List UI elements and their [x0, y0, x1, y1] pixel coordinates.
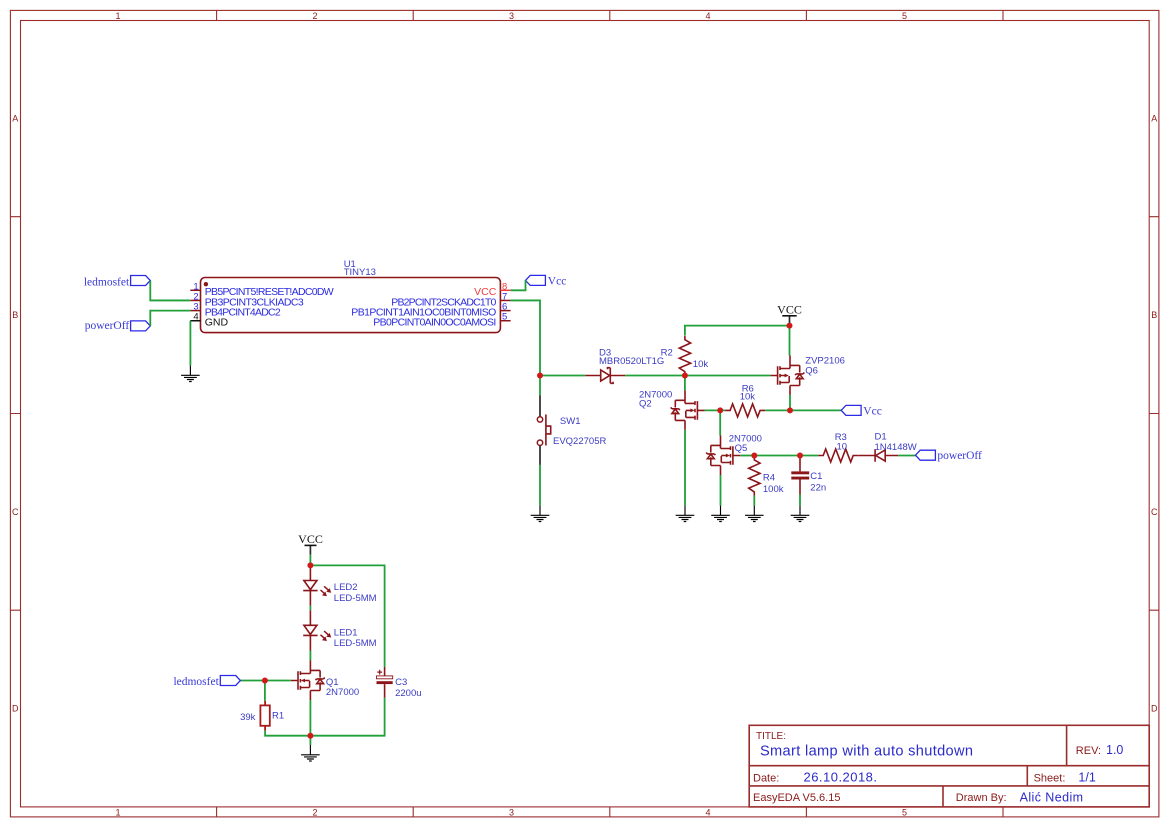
svg-text:R1: R1 — [272, 711, 284, 722]
svg-text:EVQ22705R: EVQ22705R — [553, 436, 606, 447]
resistor R3 — [818, 449, 858, 462]
svg-text:4: 4 — [193, 312, 198, 323]
transistor Q5 2N7000 — [706, 436, 740, 476]
svg-text:LED-5MM: LED-5MM — [334, 638, 377, 649]
wire node G to C3 branch — [310, 565, 384, 667]
wire node H down to R1 — [264, 681, 266, 701]
wire node D down to Q5 drain — [719, 410, 721, 435]
transistor Q2 2N7000 — [671, 390, 705, 430]
svg-text:B: B — [1151, 310, 1157, 320]
pin 2 U1 — [190, 291, 304, 308]
wire Q2 source to ground — [684, 430, 686, 506]
ground (Q5) — [711, 506, 730, 522]
pin 8 U1 VCC — [474, 281, 510, 298]
wire node H to ledmosfet flag — [240, 680, 265, 682]
wire pin8 to Vcc flag — [511, 280, 526, 290]
ground (U1 GND) — [181, 366, 200, 382]
junction dot node I (rail / ground) — [307, 733, 313, 739]
svg-text:MBR0520LT1G: MBR0520LT1G — [599, 356, 664, 367]
svg-text:2N7000: 2N7000 — [326, 687, 359, 698]
junction dot node B (R2 bottom) — [682, 373, 688, 379]
junction dot node D (Q2 gate / R6) — [717, 407, 723, 413]
svg-text:C1: C1 — [810, 471, 822, 482]
LED2 LED-5MM — [303, 565, 331, 605]
svg-text:powerOff: powerOff — [85, 320, 130, 332]
svg-text:5: 5 — [902, 11, 907, 21]
wire Q1 gate to node H — [265, 680, 291, 682]
svg-text:A: A — [1151, 114, 1157, 124]
pin 6 U1 — [351, 302, 510, 319]
net flag Vcc (right of U1) — [526, 275, 567, 287]
wire Q5 source to ground — [720, 475, 722, 506]
wire SW1 to ground — [539, 465, 541, 506]
svg-text:10: 10 — [837, 441, 848, 452]
pin 4 U1 GND — [190, 312, 228, 329]
resistor R4 — [749, 456, 760, 496]
svg-text:TINY13: TINY13 — [344, 267, 376, 278]
junction dot node A (SW1/D3/pin7) — [537, 373, 543, 379]
wire R6 to node C — [765, 409, 790, 411]
LED1 LED-5MM — [303, 610, 331, 650]
svg-text:EasyEDA V5.6.15: EasyEDA V5.6.15 — [753, 792, 840, 804]
svg-text:10k: 10k — [693, 359, 709, 370]
svg-text:VCC: VCC — [298, 532, 323, 546]
wire pin7 down to node A — [511, 300, 540, 375]
svg-text:Vcc: Vcc — [548, 276, 567, 288]
svg-text:Q1: Q1 — [326, 677, 339, 688]
wire LED1 to Q1 — [309, 651, 311, 661]
wire node F to R3 — [800, 455, 818, 457]
wire VCC down to Q6 — [789, 326, 791, 356]
junction dot node C (Q6 drain / Vcc) — [787, 407, 793, 413]
svg-text:Drawn By:: Drawn By: — [956, 792, 1007, 804]
svg-text:TITLE:: TITLE: — [756, 731, 786, 742]
wire Q1 source to rail — [309, 700, 311, 736]
svg-text:Smart lamp with auto shutdown: Smart lamp with auto shutdown — [760, 744, 973, 760]
svg-text:VCC: VCC — [777, 302, 802, 316]
wire rail to C3 bottom — [310, 698, 384, 736]
svg-text:1: 1 — [115, 807, 120, 817]
wire R1 to bottom rail — [265, 731, 310, 736]
wire LED2 to LED1 — [309, 606, 311, 611]
wire Q5 gate to node E — [740, 455, 754, 457]
svg-text:GND: GND — [205, 317, 229, 329]
svg-text:22n: 22n — [810, 483, 826, 494]
capacitor C1 — [791, 456, 809, 495]
IC U1 TINY13 — [201, 259, 501, 333]
svg-text:100k: 100k — [763, 484, 784, 495]
transistor Q1 2N7000 (mirrored) — [291, 661, 325, 701]
wire node I to ground — [309, 736, 311, 745]
IC U1 box — [201, 278, 501, 333]
pin 3 U1 — [190, 302, 281, 319]
pin 7 U1 — [391, 291, 510, 308]
svg-text:D: D — [1151, 704, 1158, 714]
svg-text:C3: C3 — [395, 677, 407, 688]
svg-text:1: 1 — [115, 11, 120, 21]
svg-text:10k: 10k — [740, 392, 756, 403]
svg-text:B: B — [12, 310, 18, 320]
wire pin4 to ground — [189, 321, 191, 366]
svg-text:LED2: LED2 — [334, 582, 358, 593]
svg-text:4: 4 — [705, 11, 710, 21]
title block — [749, 725, 1149, 807]
power VCC (bottom left) — [298, 532, 323, 555]
wire D3 to node B — [625, 375, 685, 377]
net flag powerOff (right) — [916, 450, 983, 462]
svg-text:ledmosfet: ledmosfet — [84, 276, 130, 288]
junction dot node E (Q5 gate / R4) — [751, 453, 757, 459]
net flag ledmosfet (bottom) — [173, 676, 240, 688]
svg-text:Q5: Q5 — [735, 443, 748, 454]
junction dot node VCC top — [787, 323, 793, 329]
svg-text:C: C — [1151, 507, 1158, 517]
junction dot node F (C1 / R3) — [797, 453, 803, 459]
transistor Q6 ZVP2106 (PMOS, mirrored) — [770, 356, 804, 396]
svg-text:LED1: LED1 — [334, 628, 358, 639]
svg-text:Alić Nedim: Alić Nedim — [1020, 791, 1084, 805]
svg-text:R2: R2 — [661, 347, 673, 358]
wire R4 to ground — [753, 496, 755, 506]
frame column numbers top — [115, 11, 907, 21]
svg-text:ledmosfet: ledmosfet — [173, 676, 219, 688]
svg-text:1/1: 1/1 — [1078, 771, 1095, 785]
wire R2 top to VCC — [685, 326, 790, 336]
svg-text:C: C — [12, 507, 19, 517]
diode D3 MBR0520LT1G — [585, 368, 625, 384]
wire main line to Q6 gate — [685, 375, 771, 377]
wire node A down to SW1 — [539, 376, 541, 396]
svg-text:LED-5MM: LED-5MM — [334, 593, 377, 604]
resistor R2 — [679, 336, 690, 376]
svg-text:R4: R4 — [763, 473, 775, 484]
svg-text:PB0PCINT0AIN0OC0AMOSI: PB0PCINT0AIN0OC0AMOSI — [373, 317, 496, 329]
net flag Vcc (mid right) — [841, 405, 882, 417]
svg-text:D1: D1 — [875, 432, 887, 443]
svg-text:Q6: Q6 — [805, 365, 818, 376]
pin 5 U1 — [373, 312, 510, 329]
wire node C to Vcc flag — [790, 409, 841, 411]
svg-text:REV:: REV: — [1076, 745, 1101, 757]
svg-text:Q2: Q2 — [639, 398, 652, 409]
resistor R6 — [725, 404, 765, 417]
svg-text:Sheet:: Sheet: — [1034, 772, 1066, 784]
wire powerOff to pin3 — [150, 311, 190, 326]
svg-text:3: 3 — [509, 11, 514, 21]
svg-text:Vcc: Vcc — [863, 405, 882, 417]
svg-text:powerOff: powerOff — [937, 450, 982, 462]
wire C1 to ground — [799, 495, 801, 506]
svg-text:Date:: Date: — [753, 772, 779, 784]
wire node E to node F — [754, 455, 800, 457]
svg-text:D: D — [12, 704, 19, 714]
wire Q6 drain to node C — [789, 395, 791, 411]
frame row letters right — [1151, 114, 1158, 714]
svg-text:A: A — [12, 114, 18, 124]
net flag powerOff (left) — [85, 320, 151, 332]
ground (Q2) — [676, 506, 695, 522]
pin 1 U1 — [190, 281, 333, 298]
svg-text:5: 5 — [902, 807, 907, 817]
svg-text:5: 5 — [502, 312, 507, 323]
svg-text:2: 2 — [312, 11, 317, 21]
resistor R1 (box style) — [260, 701, 269, 731]
switch SW1 EVQ22705R — [537, 395, 550, 465]
wire VCC to node G — [309, 555, 311, 566]
svg-text:26.10.2018.: 26.10.2018. — [804, 770, 878, 785]
wire D1 to powerOff flag — [898, 455, 915, 457]
ground (SW1) — [531, 506, 550, 522]
frame column numbers bottom — [115, 807, 907, 817]
svg-text:4: 4 — [705, 807, 710, 817]
wire node A to D3 — [540, 375, 585, 377]
svg-text:1.0: 1.0 — [1106, 743, 1123, 757]
wire ledmosfet to pin2 — [150, 281, 190, 301]
junction dot node H (Q1 gate / R1) — [262, 678, 268, 684]
capacitor C3 2200u — [377, 667, 393, 698]
ground (R4) — [745, 506, 764, 522]
svg-text:39k: 39k — [240, 712, 256, 723]
svg-text:1N4148W: 1N4148W — [875, 442, 917, 453]
diode D1 1N4148W — [858, 449, 898, 461]
ground (rail) — [301, 745, 320, 761]
wire Q2 gate to R6 — [705, 409, 726, 411]
svg-text:2200u: 2200u — [395, 688, 421, 699]
svg-text:3: 3 — [509, 807, 514, 817]
ground (C1) — [791, 506, 810, 522]
power VCC (top) — [777, 302, 802, 324]
frame row letters left — [12, 114, 19, 714]
svg-text:SW1: SW1 — [560, 416, 581, 427]
pin1 marker dot — [204, 282, 208, 286]
wire R2 node to Q2 drain — [684, 376, 686, 391]
svg-text:2: 2 — [312, 807, 317, 817]
junction dot node G (VCC / LED2 / C3) — [307, 562, 313, 568]
net flag ledmosfet (top left) — [84, 276, 150, 289]
